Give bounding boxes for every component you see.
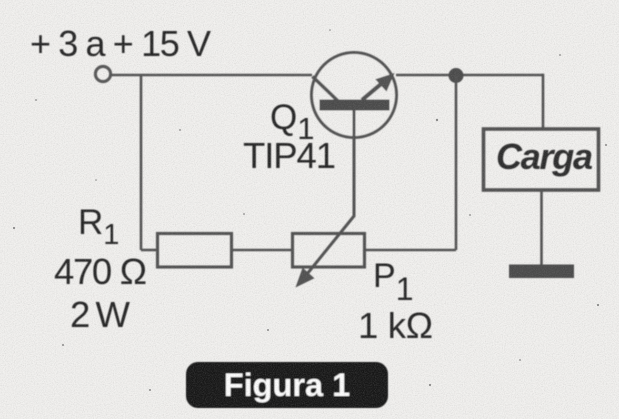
resistor R1 body xyxy=(158,234,232,268)
potentiometer P1 wiper arrowhead xyxy=(296,268,315,288)
wire: P1 to right vertical xyxy=(365,249,457,252)
wire: Carga to ground xyxy=(540,190,543,266)
transistor Q1 base bar xyxy=(320,100,390,111)
ground symbol xyxy=(509,265,574,279)
transistor Q1 emitter arrowhead xyxy=(375,73,394,92)
junction node (dot) xyxy=(449,68,464,83)
transistor Q1 collector lead xyxy=(313,77,339,102)
load box Carga xyxy=(484,129,599,190)
wire: right vertical from junction down to P1 xyxy=(455,75,458,250)
input terminal (open circle) xyxy=(95,66,110,81)
transistor Q1 emitter lead xyxy=(362,84,381,100)
wire: transistor emitter to right corner (top right horizontal) xyxy=(396,74,543,77)
transistor Q1 base lead (down to wiper) xyxy=(353,110,356,217)
potentiometer P1 body xyxy=(293,234,365,268)
potentiometer P1 wiper diagonal xyxy=(303,216,354,279)
wire: R1 to P1 xyxy=(232,249,293,252)
transistor Q1 circle xyxy=(312,53,397,138)
wire: left vertical to R1 left lead xyxy=(141,249,157,252)
wire: terminal to transistor collector (top left horizontal) xyxy=(111,74,313,77)
figure caption box xyxy=(186,362,388,408)
wire: left vertical drop to R1 xyxy=(140,75,143,250)
wire: corner down to Carga xyxy=(542,74,545,128)
